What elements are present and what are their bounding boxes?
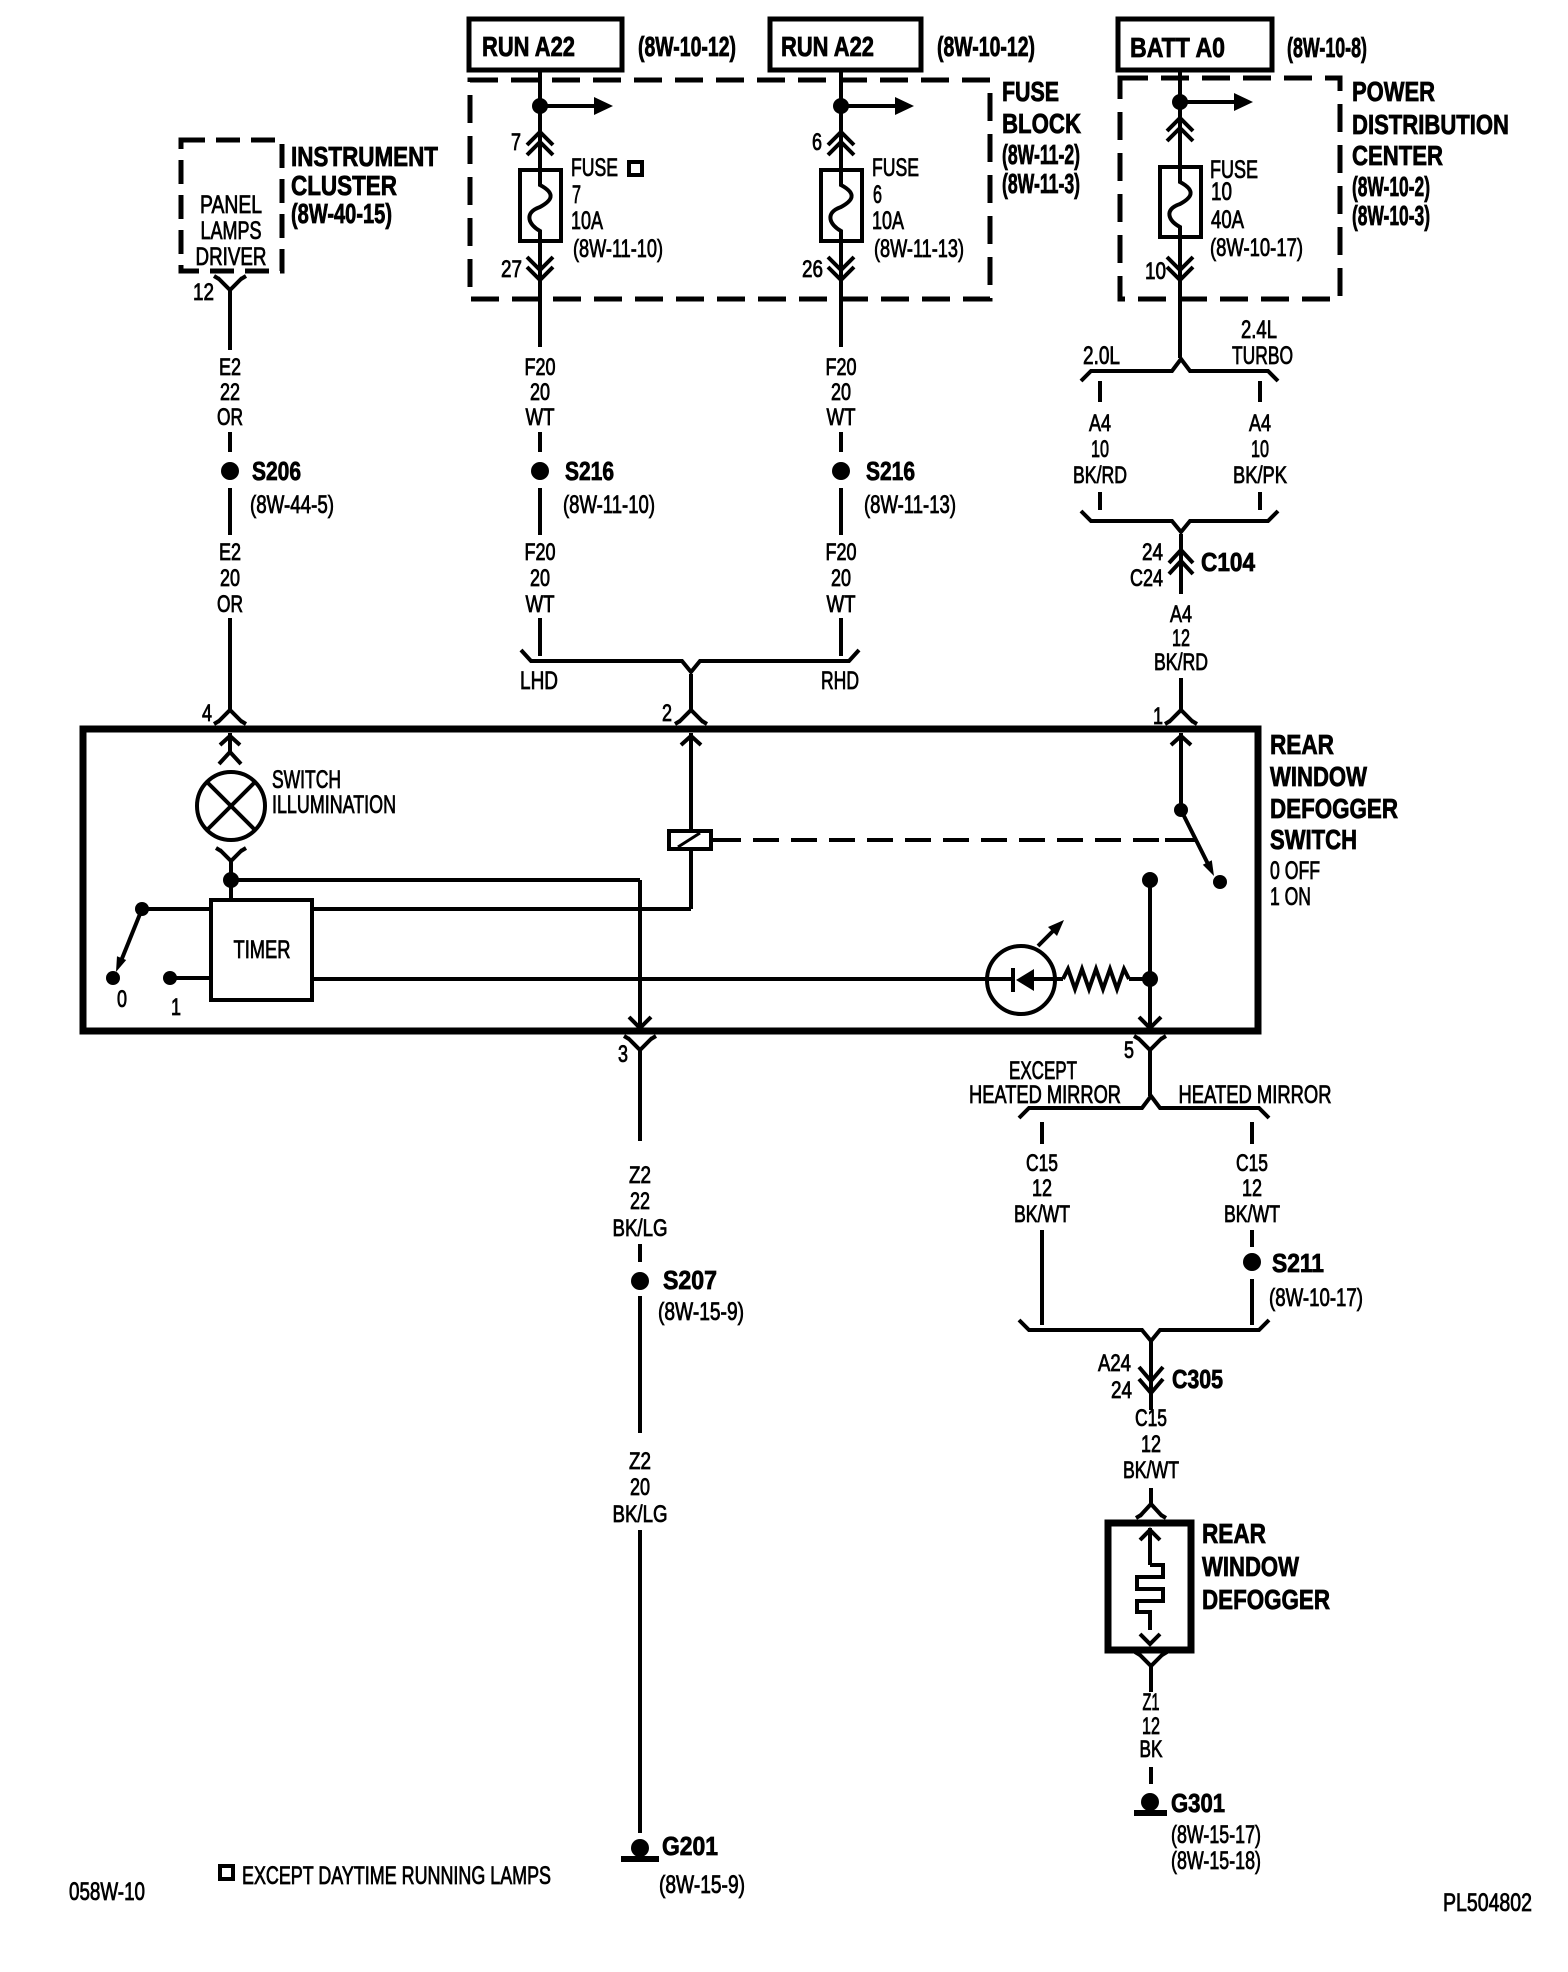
svg-text:DISTRIBUTION: DISTRIBUTION bbox=[1352, 109, 1509, 140]
svg-text:(8W-10-17): (8W-10-17) bbox=[1269, 1284, 1363, 1312]
svg-text:A4: A4 bbox=[1089, 410, 1111, 437]
svg-text:FUSE: FUSE bbox=[1002, 76, 1059, 107]
svg-text:C104: C104 bbox=[1201, 547, 1255, 577]
svg-text:S216: S216 bbox=[866, 456, 915, 486]
svg-text:F20: F20 bbox=[826, 354, 857, 381]
svg-text:A4: A4 bbox=[1249, 410, 1271, 437]
svg-text:5: 5 bbox=[1124, 1037, 1134, 1064]
svg-text:BK/WT: BK/WT bbox=[1123, 1457, 1179, 1484]
svg-text:PANEL: PANEL bbox=[200, 191, 262, 219]
svg-text:(8W-10-8): (8W-10-8) bbox=[1287, 32, 1367, 63]
svg-text:BLOCK: BLOCK bbox=[1002, 108, 1081, 139]
svg-text:C305: C305 bbox=[1172, 1364, 1223, 1394]
svg-text:WINDOW: WINDOW bbox=[1202, 1551, 1299, 1582]
svg-text:2.0L: 2.0L bbox=[1083, 342, 1120, 370]
svg-text:(8W-10-3): (8W-10-3) bbox=[1352, 200, 1430, 231]
svg-text:RUN A22: RUN A22 bbox=[482, 31, 575, 62]
svg-text:(8W-15-9): (8W-15-9) bbox=[659, 1871, 745, 1899]
svg-text:F20: F20 bbox=[525, 354, 556, 381]
svg-text:FUSE: FUSE bbox=[872, 154, 919, 182]
svg-text:10: 10 bbox=[1211, 178, 1232, 206]
svg-text:20: 20 bbox=[220, 565, 240, 592]
svg-text:TIMER: TIMER bbox=[234, 936, 291, 964]
svg-text:7: 7 bbox=[511, 129, 521, 156]
svg-text:(8W-15-9): (8W-15-9) bbox=[658, 1298, 744, 1326]
svg-text:(8W-40-15): (8W-40-15) bbox=[291, 198, 392, 229]
svg-text:BATT A0: BATT A0 bbox=[1130, 32, 1225, 63]
svg-text:10: 10 bbox=[1251, 436, 1269, 463]
svg-text:DEFOGGER: DEFOGGER bbox=[1202, 1584, 1330, 1615]
svg-text:DEFOGGER: DEFOGGER bbox=[1270, 793, 1398, 824]
svg-text:(8W-11-13): (8W-11-13) bbox=[864, 491, 956, 519]
svg-text:(8W-11-10): (8W-11-10) bbox=[563, 491, 655, 519]
svg-text:22: 22 bbox=[630, 1188, 650, 1215]
svg-text:12: 12 bbox=[193, 279, 214, 306]
svg-text:LHD: LHD bbox=[520, 667, 558, 695]
svg-text:FUSE: FUSE bbox=[571, 154, 618, 182]
svg-text:0: 0 bbox=[117, 986, 127, 1013]
svg-text:S216: S216 bbox=[565, 456, 614, 486]
svg-text:OR: OR bbox=[217, 404, 243, 431]
svg-text:F20: F20 bbox=[826, 539, 857, 566]
svg-text:DRIVER: DRIVER bbox=[196, 243, 267, 271]
svg-text:ILLUMINATION: ILLUMINATION bbox=[272, 791, 396, 819]
svg-text:20: 20 bbox=[831, 565, 851, 592]
svg-text:C15: C15 bbox=[1236, 1150, 1268, 1177]
svg-text:26: 26 bbox=[802, 256, 823, 283]
svg-text:12: 12 bbox=[1141, 1431, 1161, 1458]
svg-text:058W-10: 058W-10 bbox=[69, 1878, 145, 1906]
svg-text:24: 24 bbox=[1142, 539, 1163, 566]
svg-text:WT: WT bbox=[526, 404, 555, 431]
svg-text:POWER: POWER bbox=[1352, 76, 1435, 107]
svg-text:(8W-11-13): (8W-11-13) bbox=[874, 235, 964, 263]
svg-text:(8W-15-18): (8W-15-18) bbox=[1171, 1847, 1261, 1875]
svg-text:EXCEPT DAYTIME RUNNING LAMPS: EXCEPT DAYTIME RUNNING LAMPS bbox=[242, 1862, 551, 1890]
svg-text:7: 7 bbox=[572, 181, 581, 209]
svg-text:E2: E2 bbox=[219, 539, 241, 566]
svg-text:SWITCH: SWITCH bbox=[1270, 824, 1357, 855]
svg-text:Z2: Z2 bbox=[629, 1162, 651, 1189]
svg-text:BK/LG: BK/LG bbox=[613, 1215, 668, 1242]
svg-text:Z1: Z1 bbox=[1143, 1689, 1160, 1716]
svg-text:C15: C15 bbox=[1135, 1405, 1167, 1432]
svg-text:22: 22 bbox=[220, 379, 240, 406]
svg-text:BK/RD: BK/RD bbox=[1073, 462, 1127, 489]
svg-text:S206: S206 bbox=[252, 456, 301, 486]
svg-text:C15: C15 bbox=[1026, 1150, 1058, 1177]
svg-text:20: 20 bbox=[530, 565, 550, 592]
svg-text:INSTRUMENT: INSTRUMENT bbox=[291, 141, 438, 172]
svg-text:A24: A24 bbox=[1098, 1350, 1131, 1377]
svg-text:BK/LG: BK/LG bbox=[613, 1501, 668, 1528]
svg-text:RHD: RHD bbox=[821, 667, 859, 695]
svg-text:CENTER: CENTER bbox=[1352, 140, 1443, 171]
svg-text:20: 20 bbox=[530, 379, 550, 406]
svg-text:REAR: REAR bbox=[1270, 729, 1334, 760]
svg-text:(8W-10-12): (8W-10-12) bbox=[638, 31, 736, 62]
svg-text:10A: 10A bbox=[872, 207, 904, 235]
svg-text:WINDOW: WINDOW bbox=[1270, 761, 1367, 792]
svg-text:10A: 10A bbox=[571, 207, 603, 235]
svg-text:2.4L: 2.4L bbox=[1241, 316, 1277, 344]
svg-text:TURBO: TURBO bbox=[1232, 342, 1293, 370]
svg-text:4: 4 bbox=[202, 700, 212, 727]
svg-text:12: 12 bbox=[1172, 625, 1190, 652]
svg-text:6: 6 bbox=[812, 129, 822, 156]
svg-text:(8W-11-2): (8W-11-2) bbox=[1002, 139, 1080, 170]
svg-text:(8W-15-17): (8W-15-17) bbox=[1171, 1821, 1261, 1849]
svg-text:E2: E2 bbox=[219, 354, 241, 381]
svg-text:RUN A22: RUN A22 bbox=[781, 31, 874, 62]
svg-text:10: 10 bbox=[1145, 258, 1166, 285]
svg-text:OR: OR bbox=[217, 591, 243, 618]
svg-text:(8W-11-3): (8W-11-3) bbox=[1002, 168, 1080, 199]
svg-text:BK/RD: BK/RD bbox=[1154, 649, 1208, 676]
svg-text:(8W-10-2): (8W-10-2) bbox=[1352, 171, 1430, 202]
svg-text:2: 2 bbox=[662, 700, 672, 727]
svg-text:WT: WT bbox=[827, 404, 856, 431]
svg-text:SWITCH: SWITCH bbox=[272, 766, 341, 794]
svg-text:(8W-11-10): (8W-11-10) bbox=[573, 235, 663, 263]
svg-text:PL504802: PL504802 bbox=[1443, 1889, 1532, 1917]
svg-text:BK/WT: BK/WT bbox=[1014, 1201, 1070, 1228]
svg-text:WT: WT bbox=[526, 591, 555, 618]
svg-text:0 OFF: 0 OFF bbox=[1270, 857, 1320, 885]
svg-text:A4: A4 bbox=[1170, 601, 1192, 628]
svg-text:24: 24 bbox=[1111, 1377, 1132, 1404]
svg-text:(8W-10-17): (8W-10-17) bbox=[1210, 234, 1303, 262]
svg-text:F20: F20 bbox=[525, 539, 556, 566]
svg-text:12: 12 bbox=[1242, 1175, 1262, 1202]
svg-text:Z2: Z2 bbox=[629, 1448, 651, 1475]
svg-text:27: 27 bbox=[501, 256, 522, 283]
svg-text:C24: C24 bbox=[1130, 565, 1163, 592]
svg-text:S211: S211 bbox=[1272, 1248, 1324, 1278]
svg-text:20: 20 bbox=[630, 1474, 650, 1501]
svg-text:BK/PK: BK/PK bbox=[1233, 462, 1287, 489]
svg-text:10: 10 bbox=[1091, 436, 1109, 463]
svg-text:G301: G301 bbox=[1171, 1788, 1225, 1818]
svg-text:S207: S207 bbox=[663, 1265, 717, 1295]
svg-text:20: 20 bbox=[831, 379, 851, 406]
svg-text:12: 12 bbox=[1032, 1175, 1052, 1202]
svg-text:6: 6 bbox=[873, 181, 882, 209]
svg-text:1: 1 bbox=[171, 994, 181, 1021]
svg-text:(8W-44-5): (8W-44-5) bbox=[250, 491, 334, 519]
svg-text:1 ON: 1 ON bbox=[1270, 883, 1311, 911]
svg-text:CLUSTER: CLUSTER bbox=[291, 170, 397, 201]
svg-text:3: 3 bbox=[618, 1041, 628, 1068]
svg-text:BK: BK bbox=[1140, 1736, 1163, 1763]
svg-text:40A: 40A bbox=[1211, 206, 1244, 234]
svg-text:REAR: REAR bbox=[1202, 1518, 1266, 1549]
svg-text:BK/WT: BK/WT bbox=[1224, 1201, 1280, 1228]
svg-text:G201: G201 bbox=[662, 1831, 718, 1861]
svg-text:(8W-10-12): (8W-10-12) bbox=[937, 31, 1035, 62]
svg-text:WT: WT bbox=[827, 591, 856, 618]
svg-text:HEATED MIRROR: HEATED MIRROR bbox=[969, 1081, 1121, 1109]
svg-text:LAMPS: LAMPS bbox=[201, 217, 262, 245]
svg-text:HEATED MIRROR: HEATED MIRROR bbox=[1179, 1081, 1332, 1109]
